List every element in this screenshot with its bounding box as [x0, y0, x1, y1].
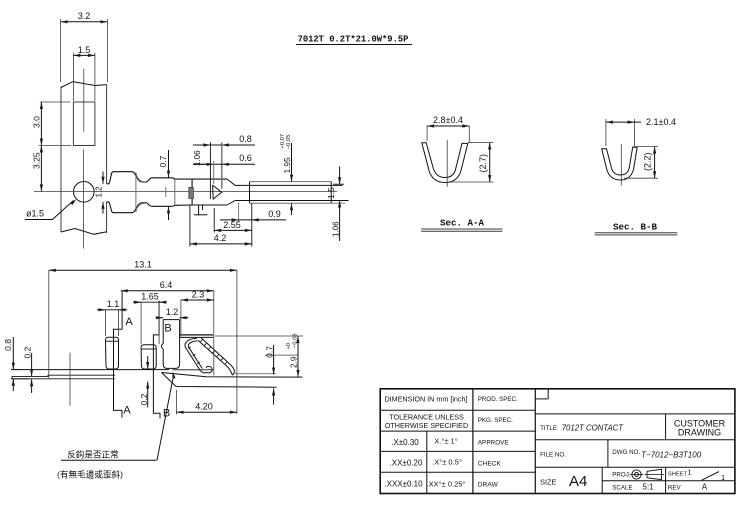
svg-text:1.5: 1.5 — [78, 45, 91, 55]
section B-B center line — [620, 144, 622, 185]
dimension 2.9 with tolerance — [215, 333, 303, 377]
dimension 3.25 — [31, 146, 43, 192]
svg-text:4.20: 4.20 — [195, 402, 213, 412]
svg-text:1.2: 1.2 — [166, 307, 179, 317]
svg-text:2.9: 2.9 — [290, 356, 299, 368]
tail inner gray line — [235, 373, 276, 375]
svg-text:1.95: 1.95 — [283, 157, 292, 173]
svg-text:DRAW: DRAW — [478, 481, 499, 488]
third angle projection symbol — [630, 469, 664, 479]
svg-text:A: A — [125, 316, 133, 328]
crimp wing inner line bottom — [136, 203, 146, 212]
text SIZE — [540, 477, 556, 486]
dimension 3.0 — [31, 102, 71, 146]
pin mid section top — [236, 184, 343, 186]
text DWG NO. — [612, 449, 640, 456]
svg-text:3.2: 3.2 — [78, 11, 91, 21]
svg-text:A4: A4 — [569, 473, 587, 490]
text REV A — [668, 482, 708, 491]
svg-text:1.1: 1.1 — [107, 299, 120, 309]
corner notch — [535, 389, 548, 399]
dimension 4.20 — [177, 390, 237, 415]
text SHEET 1 — [668, 468, 692, 478]
pin top edge — [250, 181, 332, 183]
dimension 0.7 wing — [158, 150, 170, 220]
section letter B bottom — [163, 408, 170, 420]
svg-text:13.1: 13.1 — [134, 259, 152, 269]
dimension 2.8+-0.4 — [427, 115, 469, 143]
svg-text:0.8: 0.8 — [239, 134, 252, 144]
svg-text:3.25: 3.25 — [31, 152, 41, 169]
svg-text:0.6: 0.6 — [239, 153, 252, 163]
pilot hole circle d1.5 — [74, 182, 95, 203]
dimension 1.5 slot width — [73, 45, 95, 101]
dimension (2.7) — [450, 143, 494, 183]
text A4 — [569, 473, 587, 490]
text TITLE — [540, 425, 557, 432]
svg-text:1: 1 — [688, 468, 692, 477]
strip vertical center line upper — [83, 69, 85, 132]
dimension 1.1 — [97, 299, 127, 336]
svg-text:+0: +0 — [286, 343, 292, 350]
carrier strip bottom break line — [61, 229, 107, 235]
contact beam A — [106, 337, 119, 369]
carrier strip right edge upper — [106, 85, 108, 184]
svg-text:.X±0.30: .X±0.30 — [391, 438, 419, 447]
dimension 13.1 — [49, 259, 237, 414]
step vertical gray — [174, 180, 176, 205]
svg-text:7012T 0.2T*21.0W*9.5P: 7012T 0.2T*21.0W*9.5P — [298, 35, 409, 45]
svg-text:1.06: 1.06 — [332, 221, 341, 237]
svg-text:PROJ.: PROJ. — [612, 472, 631, 479]
svg-text:B: B — [164, 323, 171, 335]
strip vertical center line lower — [83, 149, 85, 248]
text dimension in mm — [384, 395, 467, 404]
dimension 0.6 — [193, 153, 255, 184]
note text line 2 — [57, 468, 123, 479]
svg-text:1.2: 1.2 — [95, 186, 104, 198]
contact beam B — [141, 345, 156, 369]
section cut line B — [153, 301, 160, 419]
tolerance table lines — [380, 410, 535, 493]
text .X deg 0.5 — [432, 458, 462, 467]
svg-text:0.2: 0.2 — [23, 346, 33, 358]
svg-text:FILE NO.: FILE NO. — [540, 451, 566, 458]
pilot slot rectangle — [73, 102, 95, 146]
dimension 0.8 — [193, 134, 255, 199]
text PKG. SPEC. — [478, 417, 513, 424]
svg-text:(有無毛邊或歪斜): (有無毛邊或歪斜) — [57, 468, 123, 479]
svg-text:OTHERWISE SPECIFIED: OTHERWISE SPECIFIED — [385, 421, 468, 430]
part number label 7012T 0.2T*21.0W*9.5P — [296, 35, 412, 45]
text tolerance unless — [385, 413, 468, 431]
svg-text:Sec. B-B: Sec. B-B — [613, 221, 658, 232]
label diameter 1.5 with leader — [25, 199, 76, 219]
bottom view center mark — [69, 353, 71, 406]
dimension 0.8 height — [3, 337, 29, 391]
dimension (2.2) — [624, 147, 658, 179]
seating line under barb — [173, 369, 214, 371]
svg-text:5:1: 5:1 — [643, 482, 655, 491]
text .X+-0.30 — [391, 438, 419, 447]
svg-text:(2.2): (2.2) — [643, 152, 653, 171]
svg-text:0.9: 0.9 — [268, 209, 281, 219]
title area lines — [535, 414, 735, 494]
svg-text:2.8±0.4: 2.8±0.4 — [433, 115, 463, 125]
svg-text:SCALE: SCALE — [612, 485, 632, 492]
svg-text:2.1±0.4: 2.1±0.4 — [646, 117, 676, 127]
svg-text:0.8: 0.8 — [3, 339, 13, 351]
text CHECK — [478, 460, 502, 467]
svg-text:4.2: 4.2 — [214, 233, 227, 243]
svg-text:反鈎是否正常: 反鈎是否正常 — [67, 448, 119, 459]
pin mid section bottom — [236, 200, 349, 202]
wing bottom tick marks — [194, 205, 208, 215]
section letter A bottom — [123, 405, 131, 417]
barb front leg — [161, 320, 179, 369]
text .XX deg 0.25 — [427, 480, 466, 489]
dimension 0.2 thickness — [23, 346, 34, 393]
horizontal center line — [34, 191, 337, 193]
svg-text:ø1.5: ø1.5 — [26, 209, 44, 219]
contact bottom contour — [107, 202, 193, 213]
section A-A U profile — [422, 143, 468, 183]
text PROD. SPEC. — [478, 396, 518, 403]
text .XX+-0.20 — [390, 459, 423, 468]
note leader line — [157, 372, 176, 461]
dimension 3.2 — [61, 11, 108, 82]
svg-text:CHECK: CHECK — [478, 460, 502, 467]
section letter B top — [164, 323, 171, 335]
svg-text:REV: REV — [668, 485, 682, 492]
pin bottom edge — [250, 202, 332, 204]
svg-text:−0.05: −0.05 — [286, 135, 292, 150]
svg-text:APPROVE: APPROVE — [478, 439, 509, 446]
contact top contour — [107, 172, 193, 184]
pin step vertical — [249, 182, 251, 204]
lance triangle — [213, 185, 222, 199]
dimension 1.5 pin — [326, 167, 347, 213]
dimension 1.2 barb — [156, 307, 189, 319]
svg-text:3.0: 3.0 — [31, 116, 41, 128]
pin end edge — [330, 182, 332, 204]
text CUSTOMER DRAWING — [674, 418, 726, 437]
label Sec. B-B — [595, 221, 678, 235]
dimension 1.95 with tolerance — [280, 134, 293, 215]
dimension 0.7 barb height — [265, 345, 299, 405]
text DRAW — [478, 481, 499, 488]
seating plane line left — [11, 369, 169, 371]
note text line 1 — [61, 448, 157, 460]
svg-text:0.2: 0.2 — [139, 393, 149, 405]
svg-text:(2.7): (2.7) — [478, 154, 488, 173]
svg-text:2.3: 2.3 — [192, 289, 205, 299]
svg-text:A: A — [702, 482, 708, 491]
svg-text:.X°± 0.5°: .X°± 0.5° — [432, 458, 462, 467]
dimension 1.2 neck — [95, 172, 105, 214]
crimp stop dark bar — [189, 187, 194, 198]
dimension 0.2 barb gap — [139, 356, 150, 408]
svg-text:6.4: 6.4 — [160, 280, 173, 290]
svg-text:.XXX±0.10: .XXX±0.10 — [384, 480, 423, 489]
text X deg 1 — [434, 437, 457, 446]
text 7012T CONTACT — [562, 423, 625, 432]
dimension 1.65 — [133, 292, 167, 344]
wing inner vertical left — [135, 175, 137, 209]
svg-text:PKG. SPEC.: PKG. SPEC. — [478, 417, 513, 424]
svg-text:DIMENSION IN mm [inch]: DIMENSION IN mm [inch] — [384, 395, 467, 404]
svg-text:DRAWING: DRAWING — [678, 428, 721, 438]
svg-text:1.5: 1.5 — [326, 187, 336, 199]
svg-text:TITLE: TITLE — [540, 425, 557, 432]
svg-text:.XX°± 0.25°: .XX°± 0.25° — [427, 480, 466, 489]
pin bottom ext tick — [331, 202, 345, 204]
carrier strip right edge lower — [106, 202, 108, 233]
section A-A center line — [446, 140, 448, 187]
dimension 6.4 — [121, 280, 214, 376]
svg-text:.XX±0.20: .XX±0.20 — [390, 459, 423, 468]
svg-text:T−7012−B3T100: T−7012−B3T100 — [641, 450, 702, 459]
carrier strip top break line — [61, 82, 107, 88]
svg-text:0.7: 0.7 — [158, 155, 168, 167]
svg-text:7012T CONTACT: 7012T CONTACT — [562, 423, 625, 432]
text PROJ. — [612, 472, 631, 479]
svg-text:0.7: 0.7 — [265, 346, 275, 358]
cut tail wedge — [162, 373, 303, 388]
svg-text:1.65: 1.65 — [141, 292, 159, 302]
section letter A top — [125, 316, 133, 328]
solder plate outline — [12, 375, 115, 379]
dimension 2.1+-0.4 — [606, 117, 676, 146]
section B-B U profile — [602, 147, 638, 180]
retention barb loop — [180, 335, 235, 375]
text APPROVE — [478, 439, 509, 446]
text SCALE 5:1 — [612, 482, 654, 491]
svg-text:A: A — [123, 405, 131, 417]
title block frame — [380, 389, 735, 494]
dimension 1.06 left — [193, 150, 207, 166]
box outline — [192, 179, 236, 205]
svg-text:2.55: 2.55 — [223, 220, 241, 230]
svg-text:PROD. SPEC.: PROD. SPEC. — [478, 396, 518, 403]
dimension 2.3 — [181, 289, 214, 336]
svg-text:SHEET: SHEET — [668, 471, 688, 477]
svg-text:DWG NO.: DWG NO. — [612, 449, 640, 456]
svg-text:1.06: 1.06 — [193, 150, 202, 166]
carrier strip left edge — [60, 87, 62, 233]
dimension 1.06 right — [332, 213, 341, 242]
svg-text:SIZE: SIZE — [540, 477, 556, 486]
dimension 4.2 — [190, 205, 252, 247]
svg-text:Sec. A-A: Sec. A-A — [440, 217, 485, 228]
text T-7012-B3T100 — [641, 450, 702, 459]
svg-text:X.°± 1°: X.°± 1° — [434, 437, 457, 446]
svg-text:−0.08: −0.08 — [292, 333, 298, 348]
svg-text:1: 1 — [721, 473, 725, 482]
text .XXX+-0.10 — [384, 480, 423, 489]
label Sec. A-A — [421, 217, 502, 231]
crimp wing inner line top — [136, 173, 146, 183]
section cut line A — [114, 291, 123, 418]
dimension 0.9 — [220, 203, 286, 247]
text FILE NO. — [540, 451, 566, 458]
dimension 2.55 — [214, 208, 252, 233]
sheet slash — [702, 472, 725, 482]
wing inner vertical mid — [165, 187, 167, 197]
